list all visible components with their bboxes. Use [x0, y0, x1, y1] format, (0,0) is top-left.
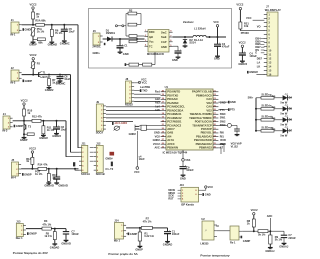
svg-text:PBMOAOC5: PBMOAOC5 — [196, 93, 212, 97]
svg-text:PDVTXD: PDVTXD — [167, 93, 178, 97]
svg-text:PP33U: PP33U — [241, 31, 249, 35]
resistor R18 — [129, 40, 137, 43]
ground GNDAD — [52, 243, 57, 245]
svg-text:D4: D4 — [289, 96, 293, 100]
svg-text:DLJ-1A: DLJ-1A — [194, 38, 203, 42]
wire contrast — [239, 29, 241, 31]
svg-text:GNDAD: GNDAD — [50, 246, 60, 250]
MCU pin R13 — [213, 136, 218, 138]
J7 pin 10 — [264, 50, 267, 52]
svg-text:LA: LA — [257, 60, 261, 64]
svg-text:DRC: DRC — [149, 30, 155, 34]
resistor R17 — [129, 35, 137, 38]
wires into J12 — [90, 147, 94, 149]
wire — [242, 230, 253, 232]
ground GNDP — [138, 245, 143, 247]
ground GNDAD — [64, 239, 69, 241]
J7 pin 11 — [264, 54, 267, 56]
capacitor C1 470uF — [119, 39, 121, 46]
svg-text:PBOAB/AO2: PBOAB/AO2 — [196, 142, 213, 146]
resistor R7b — [141, 226, 152, 229]
capacitor C8 — [56, 121, 58, 127]
svg-text:5m W: 5m W — [280, 134, 287, 138]
svg-text:GNDAD: GNDAD — [163, 243, 173, 247]
svg-text:GND: GND — [154, 131, 160, 135]
svg-text:IN-2: IN-2 — [10, 81, 15, 85]
svg-text:R12 47k: R12 47k — [32, 115, 42, 119]
svg-text:GNDMC: GNDMC — [60, 41, 70, 45]
svg-text:ADC7: ADC7 — [167, 127, 175, 131]
svg-text:PB0/AIN: PB0/AIN — [167, 146, 178, 150]
ground flag GNDP — [22, 173, 24, 176]
resistor R14 series — [38, 167, 47, 170]
ground GND#2 — [54, 133, 59, 135]
svg-text:GND#2: GND#2 — [45, 88, 54, 92]
wire AD2 to J11 — [71, 151, 80, 153]
net flag GND (MCU right) — [228, 101, 230, 104]
MCU pin L3 — [161, 98, 166, 100]
MCU pin L2 — [161, 95, 166, 97]
svg-text:5m W: 5m W — [280, 101, 287, 105]
ground GND — [118, 51, 123, 53]
MCU pin R2 — [213, 95, 218, 97]
svg-text:VCC2: VCC2 — [21, 99, 28, 103]
svg-text:LM335: LM335 — [200, 241, 209, 245]
LED D7 — [283, 128, 288, 133]
svg-text:ADC: ADC — [267, 214, 273, 218]
J7 pin 1 — [264, 14, 267, 16]
svg-text:10uF: 10uF — [64, 77, 70, 81]
capacitor C9 — [182, 161, 184, 166]
svg-text:VCC: VCC — [134, 170, 140, 174]
MCU pin R6 — [213, 110, 218, 112]
ground GND#2 — [47, 87, 52, 89]
resistor R19 — [129, 63, 139, 66]
svg-text:GNDP: GNDP — [20, 138, 28, 142]
svg-text:GND: GND — [214, 57, 220, 61]
wire — [51, 228, 66, 230]
wire — [47, 168, 79, 170]
svg-text:POTAVP: POTAVP — [201, 127, 212, 131]
svg-text:GND: GND — [161, 45, 167, 49]
svg-text:GNDP: GNDP — [130, 232, 138, 236]
wire switch input rail — [112, 38, 144, 40]
resistor R5A — [37, 38, 45, 41]
svg-text:GNDP: GNDP — [243, 239, 251, 243]
net label GND#2 to pin16 — [247, 71, 249, 74]
wire — [206, 36, 226, 38]
svg-text:RST: RST — [168, 197, 174, 201]
wire AD3 to J11 — [66, 156, 79, 158]
svg-text:SwE: SwE — [161, 35, 167, 39]
connector IN-1 — [11, 22, 19, 33]
resistor R16 — [48, 169, 50, 174]
resistor R7 — [48, 79, 51, 86]
svg-text:R5A 68k: R5A 68k — [35, 18, 46, 22]
svg-text:L1 220uH: L1 220uH — [194, 27, 206, 31]
svg-text:Vcc: Vcc — [149, 40, 154, 44]
wire LED row 2 — [256, 108, 261, 110]
wire AD4 to J11 — [75, 169, 79, 170]
svg-text:GND: GND — [220, 101, 226, 105]
ISP right pins — [199, 189, 203, 191]
svg-text:VO2: VO2 — [155, 134, 161, 138]
svg-text:GND#2: GND#2 — [238, 62, 247, 66]
connector J6 24V input — [93, 33, 100, 45]
resistor R22 series — [258, 230, 268, 233]
svg-text:PBEVOL: PBEVOL — [201, 131, 213, 135]
svg-text:68k: 68k — [38, 41, 43, 45]
net flag VCC (MCU right) — [228, 108, 230, 111]
MCU pin L7 — [161, 113, 166, 115]
wire — [152, 227, 167, 229]
ground flag GNDP — [14, 125, 16, 128]
ISP pin 1 — [178, 189, 181, 191]
ground GNDAJ — [282, 242, 287, 244]
wire — [32, 36, 34, 42]
MCU pin R11 — [213, 128, 218, 130]
svg-text:1k 1%: 1k 1% — [44, 234, 52, 238]
svg-text:U1: U1 — [165, 85, 169, 89]
svg-text:IpK: IpK — [149, 35, 153, 39]
resistor RL4 — [261, 130, 274, 133]
ground GND — [240, 60, 245, 62]
J7 pin 6 — [264, 34, 267, 36]
svg-text:5k 1%: 5k 1% — [258, 233, 266, 237]
J7 pin 13 — [264, 62, 267, 64]
wire bus net AD3 — [65, 121, 67, 157]
resistor R3 feedback — [128, 23, 137, 26]
connector J8 RS232 — [126, 81, 132, 103]
svg-text:J12: J12 — [96, 141, 101, 145]
power flag VCC (RS232) — [134, 82, 139, 84]
svg-text:SW0: SW0 — [220, 112, 226, 116]
svg-text:ALYA: ALYA — [167, 138, 174, 142]
J7 pin 14 — [264, 66, 267, 68]
resistor R10 — [23, 109, 26, 116]
svg-text:Pomiar prądu do 5A: Pomiar prądu do 5A — [108, 252, 138, 256]
J7 pin 9 — [264, 46, 267, 48]
resistor R11 — [42, 121, 44, 126]
power flag VCC (below crystal) — [136, 167, 139, 170]
MCU pin R12 — [213, 132, 218, 134]
wire — [274, 97, 283, 99]
svg-text:PC/ANDCSCL: PC/ANDCSCL — [167, 105, 185, 109]
svg-text:470uF: 470uF — [222, 44, 230, 48]
svg-text:RXD: RXD — [220, 138, 226, 142]
MCU pin L13 — [161, 136, 166, 138]
resistor R5b — [54, 229, 56, 232]
svg-text:1k 1%: 1k 1% — [37, 30, 45, 34]
ground flag GNDP — [27, 232, 29, 235]
svg-text:CA0: CA0 — [206, 105, 212, 109]
svg-text:GND: GND — [230, 100, 236, 104]
svg-text:SOCA: SOCA — [96, 131, 104, 135]
svg-text:VCC2: VCC2 — [153, 142, 160, 146]
MCU pin L5 — [161, 106, 166, 108]
svg-text:RI0: RI0 — [220, 131, 225, 135]
ground flag GNDP — [23, 28, 25, 31]
svg-text:GNDAD: GNDAD — [44, 183, 54, 187]
MCU pin R4 — [213, 102, 218, 104]
svg-text:VO: VO — [257, 24, 261, 28]
svg-text:47k 1%: 47k 1% — [42, 222, 51, 226]
svg-text:SLEDdn: SLEDdn — [261, 104, 272, 108]
LED D6 — [283, 117, 288, 122]
capacitor C2 — [177, 46, 179, 51]
svg-text:VO2: VO2 — [206, 108, 212, 112]
wire AD1 to J11 — [78, 147, 80, 149]
wire node N4 — [21, 168, 38, 170]
svg-text:VCC2: VCC2 — [251, 208, 258, 212]
wire bus net AD1 — [77, 25, 79, 148]
connector J12 SOC-B — [96, 145, 103, 172]
MCU pin L11 — [161, 128, 166, 130]
net flag right of J12 — [110, 152, 115, 156]
svg-text:GND: GND — [123, 52, 129, 56]
svg-text:PD/ADCSDA: PD/ADCSDA — [167, 108, 183, 112]
transistor T3 — [23, 121, 25, 134]
MCU pin L12 — [161, 132, 166, 134]
MCU pin R8 — [213, 117, 218, 119]
svg-text:GNDP: GNDP — [29, 43, 37, 47]
svg-text:GND#2: GND#2 — [39, 136, 48, 140]
J7 pin 12 — [264, 58, 267, 60]
svg-text:PADP/TY.OLAB: PADP/TY.OLAB — [192, 90, 212, 94]
svg-text:PO0T/LOC0A: PO0T/LOC0A — [195, 120, 212, 124]
MCU pin L16 — [161, 147, 166, 149]
ground GNDAD — [54, 182, 59, 184]
wire LED row 4 — [256, 130, 261, 132]
jumper ellipse — [114, 126, 119, 130]
ground GNDAD — [165, 241, 170, 243]
svg-text:ISP Kanda: ISP Kanda — [181, 202, 194, 206]
ground flag GNDP — [23, 80, 25, 83]
MCU pin R9 — [213, 121, 218, 123]
svg-text:GNDP: GNDP — [29, 232, 37, 236]
svg-text:TC: TC — [149, 44, 153, 48]
LED D5 — [283, 106, 288, 111]
J7 pin 15 — [264, 70, 267, 72]
ground flag GND — [125, 63, 127, 66]
resistor R13 — [31, 157, 34, 164]
wire — [274, 119, 283, 121]
wire — [26, 228, 42, 230]
capacitor C5 — [63, 25, 65, 29]
wire — [274, 130, 283, 132]
sensor U2 LM335 — [202, 221, 214, 240]
LED D4 — [283, 95, 288, 100]
svg-text:PT5: PT5 — [220, 108, 225, 112]
MCU pin R5 — [213, 106, 218, 108]
ground flag GNDP (Re1) — [241, 236, 243, 239]
wire ADC out up — [269, 218, 271, 231]
svg-text:GNDAD: GNDAD — [58, 183, 68, 187]
svg-text:VCC2: VCC2 — [236, 3, 243, 7]
svg-text:IN-4: IN-4 — [11, 176, 16, 180]
J7 pin 5 — [264, 30, 267, 32]
svg-text:Pomiar Napięcia do 30V: Pomiar Napięcia do 30V — [13, 251, 49, 255]
test point TP1 — [115, 25, 117, 27]
wire to cap — [218, 124, 227, 126]
svg-text:GNDM2: GNDM2 — [48, 43, 58, 47]
diode D1 1N5819 — [107, 37, 112, 42]
J7 pin 16 — [264, 74, 267, 76]
svg-text:CAP: CAP — [161, 40, 167, 44]
svg-text:R2: R2 — [129, 9, 133, 13]
svg-text:Rsd: Rsd — [155, 90, 160, 94]
ground GNDAD — [46, 182, 51, 184]
wire crystal to MCU — [146, 125, 160, 127]
J7 pin 7 — [264, 38, 267, 40]
svg-text:GNDs: GNDs — [93, 51, 101, 55]
svg-text:Zasilacz: Zasilacz — [183, 20, 194, 24]
capacitor C10 — [56, 169, 58, 177]
svg-text:GNDP: GNDP — [25, 28, 33, 32]
svg-text:JACA GND#: JACA GND# — [114, 122, 128, 125]
svg-text:TBENTAL/TOM8C: TBENTAL/TOM8C — [189, 116, 212, 120]
svg-text:SOC1B: SOC1B — [96, 172, 105, 176]
wire LED row 3 — [256, 119, 261, 121]
wire — [32, 19, 34, 25]
svg-text:GND#: GND# — [105, 156, 113, 160]
wire output rail — [173, 36, 193, 38]
ground GNDM2 — [49, 41, 54, 43]
svg-text:U2: U2 — [201, 217, 205, 221]
svg-text:Wy 1: Wy 1 — [114, 239, 121, 243]
wire — [268, 230, 284, 232]
svg-text:220nF: 220nF — [288, 236, 296, 240]
svg-text:GNDAD: GNDAD — [61, 242, 71, 246]
op-amp U3 MC34063ACD — [148, 30, 169, 53]
svg-text:MC34063ACD: MC34063ACD — [147, 52, 164, 56]
connector IN-2 — [11, 70, 19, 81]
MCU pin L10 — [161, 124, 166, 126]
svg-text:R14 47k: R14 47k — [38, 162, 48, 166]
svg-text:RI1: RI1 — [220, 134, 225, 138]
svg-text:SwC: SwC — [161, 30, 167, 34]
svg-text:D6: D6 — [289, 118, 293, 122]
svg-text:LK: LK — [257, 64, 261, 68]
MCU pin R14 — [213, 139, 218, 141]
svg-text:Rac 1: Rac 1 — [16, 236, 23, 240]
transistor T1 — [34, 74, 39, 76]
svg-text:TBENTAL/TOM80: TBENTAL/TOM80 — [190, 112, 213, 116]
svg-text:GNDP: GNDP — [16, 124, 24, 128]
svg-text:Re 1: Re 1 — [230, 241, 236, 245]
svg-text:GND#2: GND#2 — [52, 134, 61, 138]
svg-text:AI4: AI4 — [167, 134, 172, 138]
resistor R2 feedback — [128, 12, 137, 15]
svg-text:PGAIN/TD: PGAIN/TD — [167, 90, 180, 94]
svg-text:GNDP: GNDP — [25, 79, 33, 83]
svg-text:VCC2: VCC2 — [30, 53, 37, 57]
svg-text:GND#2: GND#2 — [249, 70, 258, 74]
ISP pin 2 — [178, 192, 181, 194]
svg-text:PCA/ADC2: PCA/ADC2 — [167, 123, 181, 127]
svg-text:GNDAJ: GNDAJ — [265, 249, 275, 253]
ground flag GND (ISP) — [202, 193, 204, 196]
resistor R4 — [32, 12, 35, 19]
svg-text:Pomiar temperatury: Pomiar temperatury — [200, 254, 230, 258]
svg-text:C1..T2: C1..T2 — [105, 167, 113, 171]
svg-text:5m W: 5m W — [280, 123, 287, 127]
test point circle — [227, 123, 231, 127]
wire to VCC below — [136, 131, 138, 167]
svg-text:CA0: CA0 — [206, 97, 212, 101]
ground flag GNDs — [104, 43, 106, 45]
svg-text:0.22 1Ω: 0.22 1Ω — [144, 234, 153, 238]
svg-text:J14: J14 — [114, 219, 119, 223]
svg-text:10nF: 10nF — [139, 157, 145, 161]
svg-text:SW2: SW2 — [220, 119, 226, 123]
ground GNDAJ — [268, 247, 273, 249]
svg-text:GND: GND — [205, 192, 211, 196]
ground GNDP — [31, 41, 36, 43]
wire RS232 to MCU — [134, 93, 161, 95]
ground GND — [181, 174, 186, 176]
svg-text:GND2: GND2 — [129, 132, 137, 136]
wire — [126, 227, 141, 229]
svg-text:AVCC: AVCC — [167, 142, 175, 146]
power flag VSS — [182, 150, 184, 159]
ground GND#2 — [41, 134, 46, 136]
svg-text:DB7: DB7 — [257, 56, 263, 60]
ground GND — [176, 56, 181, 58]
MCU pin L6 — [161, 110, 166, 112]
resistor RL1 — [261, 97, 274, 100]
capacitor C3 — [217, 37, 219, 44]
capacitor C11 — [231, 124, 237, 126]
svg-text:SW+: SW+ — [248, 96, 254, 100]
svg-text:D7: D7 — [289, 129, 293, 133]
svg-text:GND: GND — [172, 58, 178, 62]
svg-text:VI..B2: VI..B2 — [231, 145, 239, 149]
resistor R15 (emitter) — [27, 133, 34, 136]
MCU pin L1 — [161, 91, 166, 93]
svg-text:TXD: TXD — [142, 89, 147, 93]
svg-text:TBAN/WTATCP: TBAN/WTATCP — [192, 123, 212, 127]
connector J11 SOC-A — [82, 145, 88, 172]
resistor R3b — [42, 227, 51, 230]
wire node N2 — [22, 74, 71, 76]
ISP pin 3 — [178, 195, 181, 197]
test point TP2 — [122, 25, 124, 27]
wire feedback — [117, 25, 121, 27]
trimmer P2 — [32, 62, 35, 69]
MCU pin L14 — [161, 139, 166, 141]
MCU pin L8 — [161, 117, 166, 119]
svg-text:PCT/WDO1: PCT/WDO1 — [167, 120, 182, 124]
MCU pin L15 — [161, 143, 166, 145]
net flag JACA GND — [112, 122, 114, 125]
svg-text:GNDP: GNDP — [135, 247, 143, 251]
svg-text:VCC: VCC — [246, 16, 252, 20]
svg-text:VCC: VCC — [142, 80, 148, 84]
svg-text:SW1: SW1 — [220, 116, 226, 120]
svg-text:VSS: VSS — [185, 158, 190, 162]
J7 pin 2 — [264, 18, 267, 20]
connector J14 Wy1 — [115, 223, 124, 240]
capacitor C4 — [239, 52, 246, 54]
svg-text:IN-1: IN-1 — [10, 33, 15, 37]
svg-text:WA-DISPLAY: WA-DISPLAY — [265, 8, 281, 12]
svg-text:PT5: PT5 — [230, 108, 235, 112]
resistor R21 pullup — [239, 22, 242, 29]
svg-text:P2: P2 — [37, 62, 41, 66]
net flag left of J11 — [73, 162, 75, 166]
svg-text:GND2: GND2 — [153, 138, 161, 142]
